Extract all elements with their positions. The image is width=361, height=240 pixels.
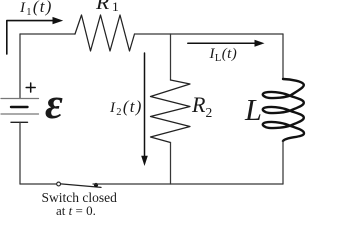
wire top horizontal (R1 to top-right corner) (135, 33, 284, 35)
wire left vertical lower (battery to bottom wire) (19, 122, 21, 184)
label IL(t) (210, 47, 238, 62)
label EMF epsilon (45, 83, 63, 127)
resistor R1 (75, 15, 135, 51)
label L (245, 95, 262, 126)
switch hinge circle (57, 182, 61, 186)
current arrow IL (188, 42, 255, 44)
battery plus sign (26, 83, 35, 92)
battery plate long lower (1, 113, 39, 115)
label R1 (96, 0, 119, 13)
battery plate short thick (11, 106, 28, 108)
wire right vertical upper (corner to inductor) (282, 34, 284, 79)
label switch caption line 1 (42, 191, 117, 205)
wire top-left horizontal (battery top to R1) (20, 33, 75, 35)
wire right vertical lower (inductor to bottom corner) (282, 141, 284, 184)
battery EMF source: plate long top (1, 98, 39, 100)
label switch caption line 2 (56, 204, 96, 217)
wire bottom (switch to bottom-right corner) (93, 183, 283, 185)
switch blade (61, 184, 101, 188)
wire left vertical (top corner down to battery) (19, 34, 21, 99)
current arrow I2 (144, 53, 146, 157)
resistor R2 (151, 80, 191, 143)
inductor L coil (263, 79, 304, 141)
label I2(t) (110, 99, 143, 116)
wire middle branch lower lead (170, 143, 172, 185)
current arrow I1 (7, 21, 53, 54)
label R2 (192, 94, 212, 116)
label I1(t) (20, 0, 53, 16)
switch contact dot (94, 183, 98, 187)
wire bottom-left (to switch) (20, 183, 57, 185)
battery plate short bottom (11, 121, 28, 123)
wire middle branch upper lead (170, 34, 172, 80)
